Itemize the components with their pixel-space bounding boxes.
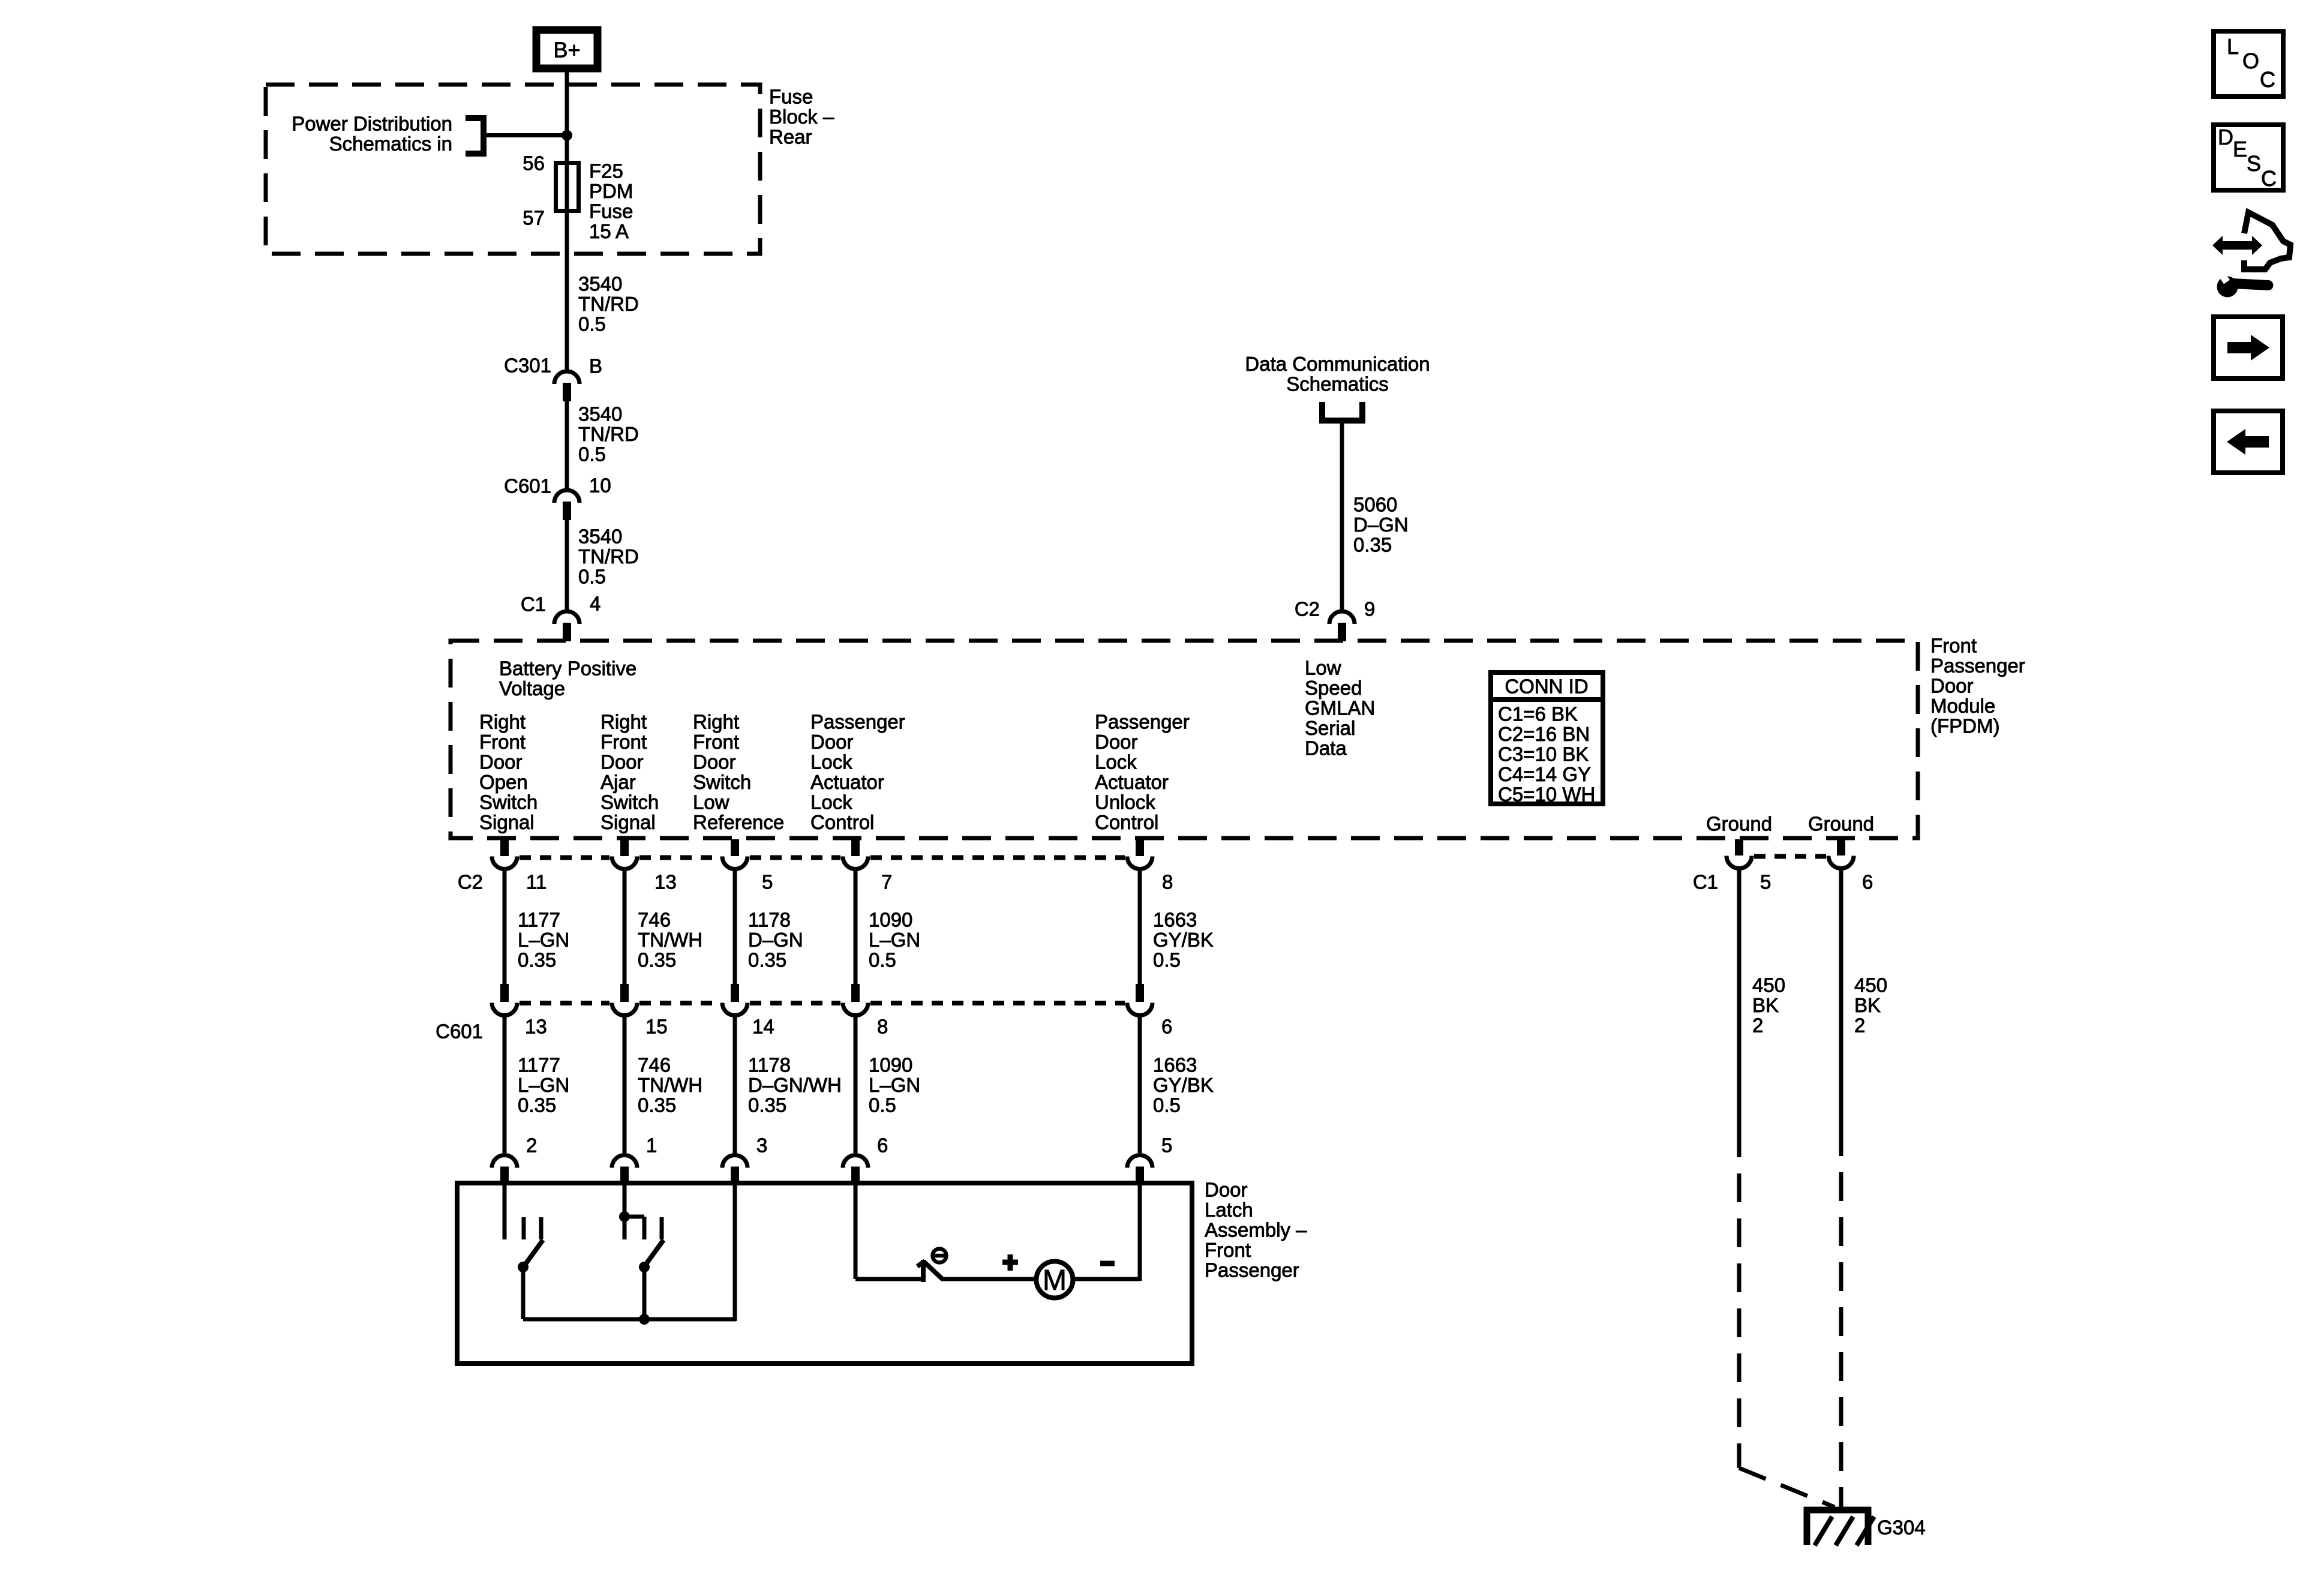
svg-text:5060: 5060 (1353, 494, 1397, 516)
svg-text:450: 450 (1854, 974, 1887, 996)
svg-text:Control: Control (810, 811, 874, 833)
svg-text:Lock: Lock (1095, 751, 1137, 773)
junction of ajar switch with common wire (639, 1314, 650, 1325)
svg-text:0.35: 0.35 (638, 949, 676, 971)
B+ power symbol box (536, 30, 597, 68)
svg-text:Front: Front (693, 731, 739, 753)
svg-text:Schematics: Schematics (1286, 373, 1389, 395)
ground symbol G304 (1804, 1507, 1874, 1545)
svg-text:Schematics in: Schematics in (329, 133, 452, 155)
svg-text:Switch: Switch (479, 791, 538, 813)
svg-text:L–GN: L–GN (518, 1074, 569, 1096)
svg-text:9: 9 (1364, 598, 1375, 620)
svg-text:Actuator: Actuator (1095, 771, 1169, 793)
pin function: Right Front Door Switch Low Reference (693, 711, 784, 834)
svg-text:0.5: 0.5 (578, 566, 606, 588)
connector C2 pin 8 stub+cup (column 5) (1136, 839, 1144, 856)
svg-text:2: 2 (1854, 1014, 1865, 1037)
wire 1178 segment C601-latch (column 3) (733, 1015, 737, 1153)
svg-text:C: C (2261, 166, 2277, 191)
dotted harness line at connector C601 row (520, 1001, 1125, 1005)
wire label 1177 L–GN 0.35 (lower) (518, 1054, 569, 1116)
svg-text:GY/BK: GY/BK (1153, 929, 1214, 951)
wire label 1178 D–GN 0.35 (upper) (748, 909, 803, 971)
CONN ID rows (1498, 703, 1595, 806)
Fuse Block - Rear dashed box (266, 85, 760, 254)
connector C2 pin 9 into FPDM (1329, 611, 1355, 641)
wire label 1663 GY/BK 0.5 (upper) (1153, 909, 1214, 971)
off-page bracket for data communication (1322, 402, 1362, 421)
svg-text:Speed: Speed (1305, 677, 1362, 699)
svg-text:D–GN: D–GN (748, 929, 803, 951)
svg-text:15: 15 (645, 1016, 668, 1038)
svg-text:Fuse: Fuse (589, 200, 633, 223)
back arrow icon box (2214, 411, 2283, 473)
svg-text:D–GN/WH: D–GN/WH (748, 1074, 842, 1096)
door latch connector pin 5 (1127, 1155, 1152, 1185)
svg-text:6: 6 (877, 1134, 888, 1157)
svg-text:TN/RD: TN/RD (578, 293, 639, 315)
wire 1177 segment C2-C601 (column 1) (503, 869, 507, 984)
svg-text:0.35: 0.35 (518, 1094, 556, 1116)
svg-text:Rear: Rear (769, 126, 812, 148)
door latch connector pin 6 (843, 1155, 868, 1185)
svg-text:D–GN: D–GN (1353, 514, 1409, 536)
wire 1177 segment C601-latch (column 1) (503, 1015, 507, 1153)
svg-text:Switch: Switch (693, 771, 751, 793)
svg-text:Front: Front (600, 731, 647, 753)
svg-text:1177: 1177 (518, 1054, 560, 1076)
connector C601 stub+cup (column 1) (500, 984, 509, 1002)
svg-text:B+: B+ (553, 38, 580, 62)
svg-text:L–GN: L–GN (869, 929, 920, 951)
svg-text:10: 10 (589, 475, 611, 497)
connector C601 stub+cup (column 3) (731, 984, 739, 1002)
wire to lock switch (855, 1277, 923, 1281)
pin function: Right Front Door Open Switch Signal (479, 711, 538, 834)
svg-text:1177: 1177 (518, 909, 560, 931)
Front Passenger Door Module (FPDM) dashed box (451, 641, 1918, 838)
svg-text:6: 6 (1862, 871, 1873, 893)
svg-text:C: C (2260, 67, 2275, 92)
svg-text:TN/WH: TN/WH (638, 929, 702, 951)
svg-text:PDM: PDM (589, 180, 633, 202)
Data Communication Schematics label (1245, 353, 1430, 395)
door latch connector pin 2 (492, 1155, 517, 1185)
ground wire pin 6 (dashed) (1839, 1127, 1843, 1507)
svg-text:Switch: Switch (600, 791, 659, 813)
svg-text:0.5: 0.5 (578, 443, 606, 466)
svg-text:Door: Door (479, 751, 523, 773)
pin 6 lock control wire inside latch (854, 1183, 858, 1279)
svg-text:3540: 3540 (578, 403, 622, 425)
svg-text:Latch: Latch (1205, 1199, 1253, 1221)
svg-text:F25: F25 (589, 160, 623, 182)
svg-text:Right: Right (479, 711, 526, 733)
wire label 3540 TN/RD 0.5 (segment 3) (578, 526, 639, 588)
Power Distribution Schematics in label (292, 113, 452, 155)
svg-text:C2: C2 (458, 871, 483, 893)
svg-text:TN/WH: TN/WH (638, 1074, 702, 1096)
svg-text:3540: 3540 (578, 273, 622, 295)
svg-text:0.35: 0.35 (638, 1094, 676, 1116)
DESC icon box (2214, 125, 2283, 191)
svg-text:C4=14 GY: C4=14 GY (1498, 763, 1591, 785)
svg-text:D: D (2218, 125, 2233, 149)
wire 746 segment C2-C601 (column 2) (623, 869, 627, 984)
svg-text:CONN ID: CONN ID (1505, 676, 1588, 698)
switch common wire to pin 3 (523, 1317, 736, 1322)
svg-text:O: O (2242, 49, 2259, 73)
svg-text:L–GN: L–GN (518, 929, 569, 951)
connector C1 pin 4 into FPDM (554, 611, 580, 641)
Door Latch Assembly - Front Passenger label (1205, 1179, 1307, 1281)
LOC icon box (2214, 31, 2283, 97)
svg-text:3: 3 (756, 1134, 767, 1157)
svg-text:Signal: Signal (600, 811, 656, 833)
door latch connector pin 3 (722, 1155, 747, 1185)
svg-text:0.35: 0.35 (748, 949, 786, 971)
wire 1663 segment C601-latch (column 5) (1138, 1015, 1142, 1153)
fuse F25 value label (589, 160, 633, 243)
ground wire 450 BK pin 6 (solid) (1839, 868, 1843, 1127)
pin function: Right Front Door Ajar Switch Signal (600, 711, 659, 834)
svg-text:56: 56 (523, 152, 545, 175)
svg-text:Block –: Block – (769, 106, 834, 128)
svg-text:Signal: Signal (479, 811, 535, 833)
lock actuator switch (917, 1249, 947, 1283)
wire label 450 BK 2 (right) (1854, 974, 1887, 1037)
Door Latch Assembly box (457, 1183, 1192, 1364)
FPDM module name label (1930, 635, 2025, 737)
svg-text:Door: Door (1205, 1179, 1248, 1201)
svg-text:Right: Right (693, 711, 739, 733)
door ajar switch (pin 1) (619, 1183, 663, 1319)
svg-text:Actuator: Actuator (810, 771, 884, 793)
svg-text:2: 2 (526, 1134, 537, 1157)
svg-text:Front: Front (1205, 1239, 1251, 1261)
wire label 746 TN/WH 0.35 (upper) (638, 909, 702, 971)
svg-text:B: B (589, 355, 602, 377)
svg-text:1090: 1090 (869, 1054, 912, 1076)
svg-text:C601: C601 (504, 475, 551, 497)
svg-text:3540: 3540 (578, 526, 622, 548)
pin function: Passenger Door Lock Actuator Unlock Control (1095, 711, 1190, 834)
svg-text:Door: Door (1095, 731, 1138, 753)
svg-text:746: 746 (638, 909, 671, 931)
Battery Positive Voltage pin function (499, 658, 636, 700)
wire 3540 segment 2 (565, 401, 569, 489)
svg-text:Ajar: Ajar (600, 771, 636, 793)
svg-text:Front: Front (479, 731, 526, 753)
svg-text:Reference: Reference (693, 811, 784, 833)
svg-text:G304: G304 (1877, 1517, 1926, 1539)
svg-text:1: 1 (646, 1134, 657, 1157)
svg-text:Passenger: Passenger (1205, 1259, 1299, 1281)
ground wire diagonal dashed to G304 (1739, 1468, 1834, 1507)
wire label 1178 D–GN/WH 0.35 (lower) (748, 1054, 842, 1116)
wire label 1177 L–GN 0.35 (upper) (518, 909, 569, 971)
svg-text:Open: Open (479, 771, 528, 793)
svg-text:Ground: Ground (1808, 813, 1874, 835)
wire label 450 BK 2 (left) (1752, 974, 1785, 1037)
wire 3540 segment 3 (565, 520, 569, 610)
CONN ID table box (1488, 673, 1605, 804)
svg-text:E: E (2233, 137, 2247, 161)
svg-text:5: 5 (1760, 871, 1771, 893)
svg-text:0.35: 0.35 (748, 1094, 786, 1116)
connector C301 pin B (554, 371, 580, 401)
svg-text:L–GN: L–GN (869, 1074, 920, 1096)
wire branch to power distribution (487, 133, 567, 137)
svg-text:TN/RD: TN/RD (578, 423, 639, 445)
connector C2 pin 13 stub+cup (column 2) (620, 839, 629, 856)
svg-text:1178: 1178 (748, 909, 791, 931)
svg-text:GY/BK: GY/BK (1153, 1074, 1214, 1096)
svg-text:Door: Door (810, 731, 854, 753)
svg-text:0.35: 0.35 (1353, 534, 1392, 556)
svg-text:13: 13 (525, 1016, 547, 1038)
svg-text:0.5: 0.5 (578, 313, 606, 335)
svg-text:1090: 1090 (869, 909, 912, 931)
wire label 746 TN/WH 0.35 (lower) (638, 1054, 702, 1116)
svg-text:15 A: 15 A (589, 220, 629, 242)
svg-text:13: 13 (654, 871, 677, 893)
svg-text:6: 6 (1161, 1016, 1172, 1038)
svg-text:Power Distribution: Power Distribution (292, 113, 452, 135)
connector C2 pin 5 stub+cup (column 3) (731, 839, 739, 856)
pin 3 low reference wire inside latch (733, 1183, 737, 1321)
junction on B+ feed (562, 130, 572, 141)
svg-text:C1: C1 (1693, 871, 1718, 893)
svg-text:Unlock: Unlock (1095, 791, 1155, 813)
wire 1090 segment C601-latch (column 4) (854, 1015, 858, 1153)
svg-text:C301: C301 (504, 355, 551, 377)
svg-text:0.5: 0.5 (1153, 949, 1181, 971)
svg-text:0.5: 0.5 (869, 1094, 896, 1116)
svg-text:C5=10 WH: C5=10 WH (1498, 784, 1595, 806)
svg-text:Assembly –: Assembly – (1205, 1219, 1307, 1241)
wire label 1090 L–GN 0.5 (lower) (869, 1054, 920, 1116)
svg-text:1663: 1663 (1153, 909, 1197, 931)
svg-text:BK: BK (1854, 994, 1881, 1016)
svg-text:746: 746 (638, 1054, 671, 1076)
svg-text:(FPDM): (FPDM) (1930, 715, 1999, 737)
svg-text:1663: 1663 (1153, 1054, 1197, 1076)
svg-text:11: 11 (526, 871, 547, 893)
svg-text:C1=6 BK: C1=6 BK (1498, 703, 1578, 725)
svg-text:Ground: Ground (1706, 813, 1772, 835)
wire 1178 segment C2-C601 (column 3) (733, 869, 737, 984)
svg-text:Lock: Lock (810, 751, 852, 773)
dotted harness line at connector C2 row (520, 855, 1125, 860)
pin 5 unlock control wire inside latch (1138, 1183, 1142, 1281)
svg-text:0.5: 0.5 (1153, 1094, 1181, 1116)
svg-text:4: 4 (590, 593, 600, 615)
svg-text:450: 450 (1752, 974, 1785, 996)
svg-text:Data: Data (1305, 737, 1347, 760)
svg-text:7: 7 (881, 871, 892, 893)
door latch connector pin 1 (612, 1155, 637, 1185)
svg-text:TN/RD: TN/RD (578, 545, 639, 568)
svg-text:Serial: Serial (1305, 717, 1355, 739)
svg-text:C2: C2 (1295, 598, 1320, 620)
plus sign (1002, 1254, 1018, 1271)
svg-text:Low: Low (693, 791, 729, 813)
svg-text:Fuse: Fuse (769, 86, 813, 108)
svg-text:Passenger: Passenger (1930, 655, 2025, 677)
svg-text:Passenger: Passenger (1095, 711, 1190, 733)
svg-text:GMLAN: GMLAN (1305, 697, 1375, 719)
connector C601 stub+cup (column 2) (620, 984, 629, 1002)
wire 1090 segment C2-C601 (column 4) (854, 869, 858, 984)
svg-text:Voltage: Voltage (499, 677, 565, 700)
svg-text:L: L (2227, 34, 2239, 59)
svg-text:57: 57 (523, 207, 545, 229)
svg-text:5: 5 (1161, 1134, 1172, 1157)
wire label 3540 TN/RD 0.5 (segment 2) (578, 403, 639, 466)
svg-text:0.35: 0.35 (518, 949, 556, 971)
svg-text:Low: Low (1305, 657, 1341, 679)
connector C601 stub+cup (column 5) (1136, 984, 1144, 1002)
svg-text:M: M (1043, 1265, 1067, 1296)
forward arrow icon box (2214, 317, 2283, 379)
svg-text:1178: 1178 (748, 1054, 791, 1076)
svg-text:Door: Door (693, 751, 736, 773)
ground wire pin 5 (dashed) (1737, 1128, 1742, 1468)
svg-text:Door: Door (600, 751, 644, 773)
svg-text:8: 8 (877, 1016, 888, 1038)
svg-text:C3=10 BK: C3=10 BK (1498, 743, 1589, 766)
door open switch (pin 2) (505, 1183, 543, 1319)
svg-text:BK: BK (1752, 994, 1779, 1016)
svg-text:Battery Positive: Battery Positive (499, 658, 636, 680)
svg-text:Module: Module (1930, 695, 1995, 717)
svg-text:5: 5 (762, 871, 773, 893)
wire 5060 serial data (1340, 424, 1344, 610)
repair instructions icon (double arrow, outline, wrench) (2212, 212, 2290, 298)
ground connector C1 pin 5 stub+cup (1735, 839, 1743, 855)
wire motor - to pin 5 (1074, 1277, 1140, 1281)
svg-text:0.5: 0.5 (869, 949, 896, 971)
wire B+ feed down through fuse (565, 68, 569, 370)
svg-text:8: 8 (1162, 871, 1173, 893)
svg-text:Passenger: Passenger (810, 711, 905, 733)
svg-text:C2=16 BN: C2=16 BN (1498, 723, 1590, 745)
connector C2 pin 11 stub+cup (column 1) (500, 839, 509, 856)
wire label 5060 D-GN 0.35 (1353, 494, 1409, 556)
pin function: Passenger Door Lock Actuator Lock Control (810, 711, 905, 834)
svg-text:C601: C601 (436, 1020, 483, 1043)
wire switch to motor + (942, 1277, 1034, 1281)
fuse F25 PDM 15A (556, 163, 579, 211)
wire label 1090 L–GN 0.5 (upper) (869, 909, 920, 971)
wire 1663 segment C2-C601 (column 5) (1138, 869, 1142, 984)
Low Speed GMLAN Serial Data pin function (1305, 657, 1375, 760)
connector C601 stub+cup (column 4) (851, 984, 860, 1002)
svg-text:Data Communication: Data Communication (1245, 353, 1430, 375)
svg-text:Control: Control (1095, 811, 1158, 833)
svg-text:Right: Right (600, 711, 647, 733)
connector C601 pin 10 (554, 490, 580, 520)
dotted line between ground connector cups (1754, 854, 1826, 859)
off-page reference bracket (466, 118, 484, 154)
svg-text:C1: C1 (521, 593, 546, 616)
Fuse Block - Rear label (769, 86, 834, 148)
lock motor M (1037, 1262, 1073, 1298)
connector C2 pin 7 stub+cup (column 4) (851, 839, 860, 856)
svg-text:Lock: Lock (810, 791, 852, 813)
svg-text:S: S (2247, 151, 2261, 176)
ground connector C1 pin 6 stub+cup (1837, 839, 1845, 855)
wire label 1663 GY/BK 0.5 (lower) (1153, 1054, 1214, 1116)
svg-text:2: 2 (1752, 1014, 1763, 1037)
ground wire 450 BK pin 5 (solid) (1737, 868, 1742, 1128)
wire label 3540 TN/RD 0.5 (segment 1) (578, 273, 639, 335)
minus sign (1100, 1261, 1115, 1266)
svg-text:14: 14 (752, 1016, 774, 1038)
svg-text:Door: Door (1930, 675, 1974, 697)
svg-text:Front: Front (1930, 635, 1977, 657)
wire 746 segment C601-latch (column 2) (623, 1015, 627, 1153)
